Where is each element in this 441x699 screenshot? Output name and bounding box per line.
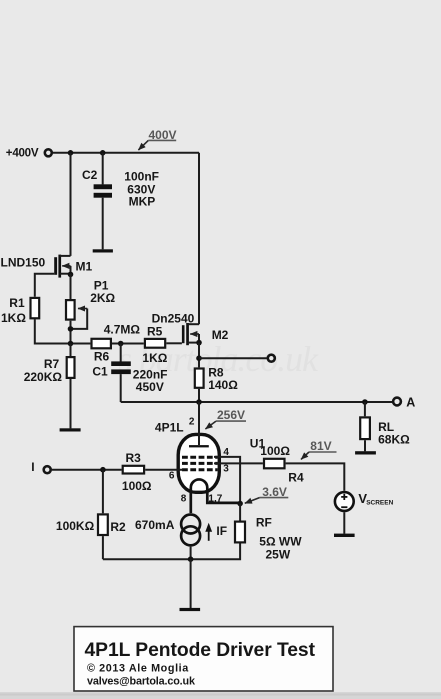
svg-text:100Ω: 100Ω [122, 479, 152, 493]
svg-text:valves@bartola.co.uk: valves@bartola.co.uk [87, 676, 196, 688]
svg-text:6: 6 [169, 471, 175, 482]
wire anode lead [198, 402, 200, 445]
junction dot M2 source [196, 340, 202, 346]
wire to output terminal [199, 357, 267, 359]
wire R7 top [70, 344, 72, 357]
svg-text:81V: 81V [310, 439, 331, 453]
svg-text:4P1L: 4P1L [155, 421, 184, 435]
pin 3 wire (to R4) [214, 462, 263, 464]
svg-text:100KΩ: 100KΩ [56, 519, 95, 533]
svg-text:R4: R4 [288, 471, 304, 485]
svg-text:100nF: 100nF [124, 169, 159, 183]
wire rail to M1 drain [70, 153, 72, 256]
wire R2 top [102, 470, 104, 514]
wire RF bottom [103, 544, 240, 560]
transistor M1 LND150 [54, 255, 70, 278]
svg-text:A: A [406, 396, 415, 410]
svg-text:M1: M1 [76, 260, 93, 274]
junction dot M1 source [68, 272, 74, 278]
ground under R7 [60, 428, 81, 431]
wire M2 source down [198, 343, 200, 368]
label R7 220KΩ [24, 357, 63, 384]
svg-text:R1: R1 [9, 296, 25, 310]
label Vscreen [358, 491, 393, 506]
resistor R6 [92, 339, 111, 349]
wire +400V rail [53, 152, 199, 154]
resistor RL [360, 402, 370, 451]
svg-text:220KΩ: 220KΩ [24, 370, 63, 384]
label 100nF 630V MKP [124, 169, 159, 208]
grid g1 row (control) [182, 468, 218, 471]
pin 6 wire (grid input) [145, 469, 183, 471]
voltage source Vscreen [335, 492, 354, 511]
wire to main ground [190, 559, 192, 608]
svg-text:2KΩ: 2KΩ [90, 291, 115, 305]
svg-text:450V: 450V [136, 380, 164, 394]
junction dot cathode bottom [188, 556, 194, 562]
svg-text:3.6V: 3.6V [262, 485, 287, 499]
pin 4 wire (screen) [214, 457, 240, 504]
wire current source bottom [190, 547, 192, 560]
resistor R8 [195, 369, 204, 388]
wire M1 gate to R1 [35, 274, 54, 297]
resistor R2 [98, 514, 108, 535]
svg-text:R7: R7 [44, 357, 60, 371]
svg-text:R6: R6 [94, 350, 110, 364]
capacitor C2 [94, 153, 112, 250]
svg-text:5Ω WW: 5Ω WW [259, 535, 302, 549]
junction dot P1 wiper tie [68, 326, 74, 332]
resistor R7 [67, 357, 75, 378]
wire R2 bottom [102, 536, 104, 559]
junction dot RL tap [362, 399, 368, 405]
wire R4 to Vscreen [286, 463, 345, 490]
svg-text:M2: M2 [212, 328, 229, 342]
label 220nF 450V [133, 367, 168, 394]
wire R1 bottom to mid rail [35, 319, 91, 343]
svg-text:IF: IF [216, 524, 227, 538]
svg-text:MKP: MKP [129, 195, 156, 209]
label R1 1KΩ [1, 296, 26, 325]
wire anode bus [121, 401, 393, 403]
anode plate bar [189, 445, 209, 447]
svg-text:4: 4 [223, 447, 229, 458]
junction dot mid rail / R7 [68, 341, 74, 347]
resistor R5 [145, 339, 165, 348]
svg-text:256V: 256V [217, 408, 245, 422]
svg-text:100Ω: 100Ω [260, 444, 290, 458]
svg-text:R2: R2 [110, 520, 126, 534]
label 400V with arrow [138, 128, 176, 150]
bottom gray strip [0, 692, 441, 699]
svg-text:2: 2 [189, 416, 195, 427]
node +400V terminal [6, 147, 52, 160]
label RL 68KΩ [378, 420, 410, 447]
wire R7 bottom to ground [70, 379, 72, 428]
svg-text:© 2013 Ale Moglia: © 2013 Ale Moglia [87, 663, 189, 675]
resistor R3 [123, 466, 144, 474]
label R8 140Ω [208, 366, 238, 392]
wire R6 to R5 [112, 343, 144, 345]
svg-text:+400V: +400V [6, 147, 39, 160]
svg-text:R5: R5 [147, 325, 163, 339]
junction dot C1 tap [118, 341, 124, 347]
wire RF top [239, 504, 241, 521]
svg-text:670mA: 670mA [135, 518, 175, 532]
wire R5 to M2 gate [166, 342, 182, 344]
title box [74, 627, 333, 691]
svg-text:RF: RF [256, 515, 272, 529]
svg-text:RL: RL [378, 420, 394, 434]
main ground [180, 608, 201, 611]
wire M1 source to P1 [70, 274, 72, 299]
IF arrow [205, 523, 212, 541]
junction dot anode node [196, 399, 202, 405]
svg-text:1,7: 1,7 [208, 494, 222, 505]
svg-text:LND150: LND150 [1, 255, 46, 269]
ground under Vscreen [334, 534, 355, 537]
current source IF 670mA [181, 515, 200, 546]
svg-text:I: I [31, 460, 34, 474]
svg-text:C2: C2 [82, 168, 98, 182]
svg-text:C1: C1 [92, 364, 108, 378]
wire rail to M2 drain [198, 153, 200, 324]
label 256V with arrow [205, 408, 246, 429]
svg-text:1KΩ: 1KΩ [1, 311, 26, 325]
svg-text:R3: R3 [126, 451, 142, 465]
label P1 2KΩ [90, 279, 115, 305]
label RF 5Ω WW 25W [256, 515, 302, 561]
label 81V with arrow [301, 439, 337, 460]
tube U1 4P1L envelope [178, 434, 219, 492]
grid g3 row (suppressor) [182, 462, 218, 465]
resistor R1 [31, 298, 40, 318]
wire P1 bottom [70, 321, 72, 344]
svg-text:SCREEN: SCREEN [366, 500, 393, 507]
output terminal [268, 355, 275, 362]
svg-text:3: 3 [223, 463, 229, 474]
ground under RL [355, 451, 376, 454]
junction dot rail/C2 [100, 150, 106, 156]
resistor RF [235, 522, 245, 543]
svg-text:8: 8 [181, 494, 187, 505]
junction dot rail/M1 [68, 150, 74, 156]
resistor R4 [264, 459, 285, 469]
label 3.6V with arrow [245, 485, 288, 503]
transistor M2 Dn2540 [182, 323, 199, 345]
grid g2 row (screen) [182, 456, 218, 459]
svg-text:140Ω: 140Ω [208, 378, 238, 392]
filament [191, 479, 240, 513]
junction dot R2 tap [100, 467, 106, 473]
node I input terminal [31, 460, 51, 474]
node A terminal [393, 396, 415, 410]
wire input to R3 [52, 469, 122, 471]
svg-text:25W: 25W [266, 548, 291, 562]
ground under C2 [93, 249, 113, 252]
svg-text:1KΩ: 1KΩ [142, 351, 167, 365]
svg-text:4.7MΩ: 4.7MΩ [104, 323, 141, 337]
wire R8 bottom [198, 389, 200, 402]
svg-text:68KΩ: 68KΩ [378, 433, 410, 447]
wire Vscreen bottom [343, 512, 345, 534]
junction dot output tee [196, 355, 202, 361]
potentiometer P1 [66, 300, 87, 329]
svg-text:4P1L Pentode Driver Test: 4P1L Pentode Driver Test [85, 640, 316, 661]
junction dot 3.6V node [237, 501, 243, 507]
capacitor C1 [111, 344, 131, 403]
